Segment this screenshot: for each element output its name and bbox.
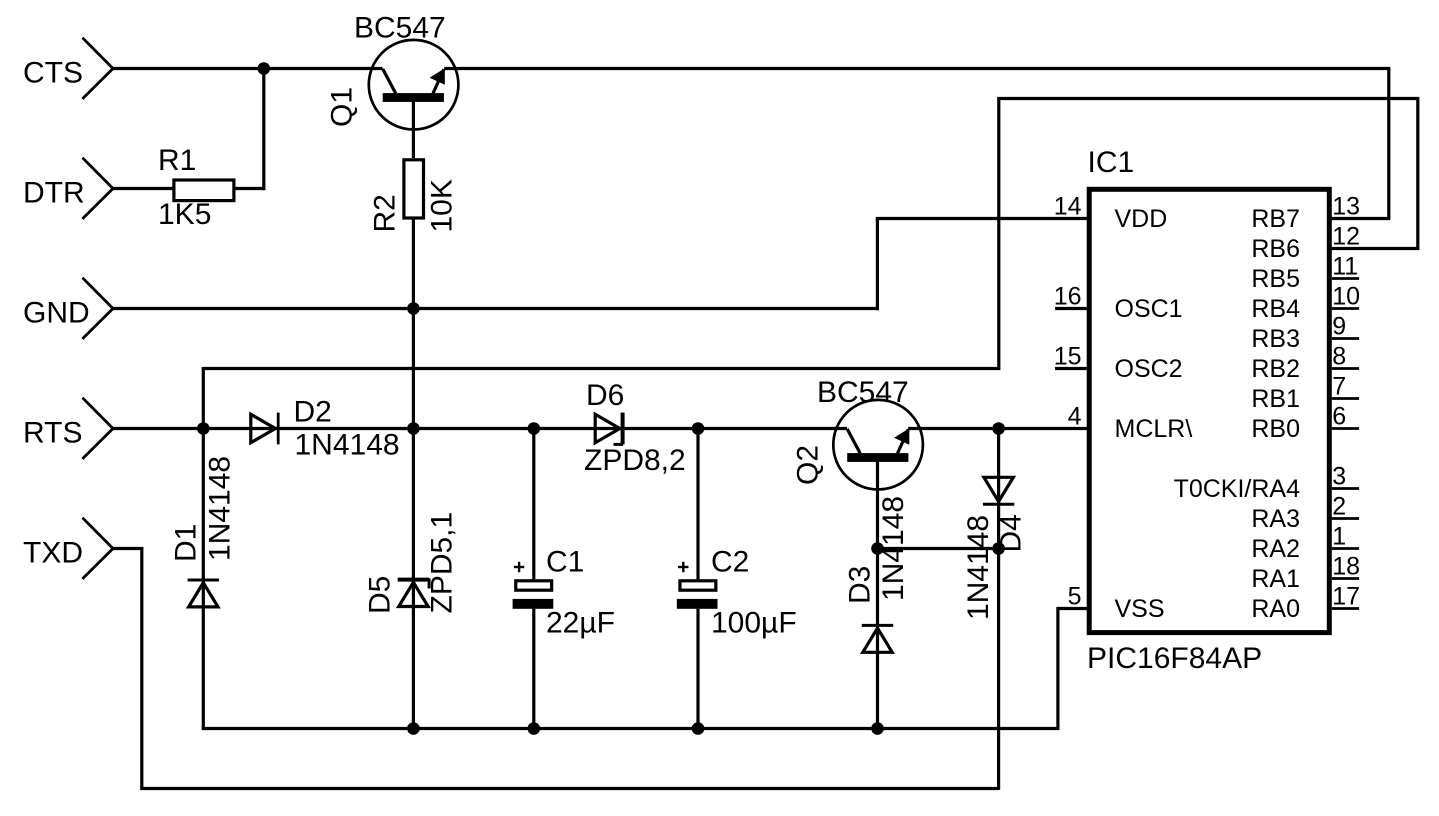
pin number 14 <box>1054 193 1082 221</box>
pin 2 stub <box>1332 517 1359 520</box>
wire RB6 top horizontal <box>997 97 1419 100</box>
IC U1 PIC16F84AP box <box>1087 146 1329 675</box>
svg-text:1N4148: 1N4148 <box>877 496 910 601</box>
svg-text:D3: D3 <box>844 566 877 604</box>
pin name RB0 <box>1251 415 1300 443</box>
wire Q1 base to R2 <box>412 101 415 158</box>
pin name RB4 <box>1251 295 1300 323</box>
diode D1 <box>170 456 237 607</box>
pin number 9 <box>1332 313 1346 341</box>
svg-text:7: 7 <box>1332 373 1346 401</box>
pin number 4 <box>1068 403 1082 431</box>
junction rail/C2 <box>692 722 705 735</box>
svg-text:RB5: RB5 <box>1251 265 1300 293</box>
wire RTS to Q2 <box>113 427 847 430</box>
wire GND to VDD riser <box>113 307 879 310</box>
svg-text:ZPD8,2: ZPD8,2 <box>584 444 686 477</box>
svg-text:MCLR\: MCLR\ <box>1115 415 1193 443</box>
pin number 13 <box>1332 193 1360 221</box>
svg-text:2: 2 <box>1332 493 1346 521</box>
wire RB6 riser <box>997 97 1000 370</box>
pin name RA3 <box>1251 505 1300 533</box>
svg-text:1: 1 <box>1332 523 1346 551</box>
svg-text:C2: C2 <box>711 546 749 579</box>
wire C1 to rail <box>532 609 535 729</box>
pin number 11 <box>1332 253 1358 281</box>
svg-text:VDD: VDD <box>1115 205 1168 233</box>
wire CTS to Q1 <box>113 67 383 70</box>
svg-text:RB1: RB1 <box>1251 385 1300 413</box>
svg-text:RA1: RA1 <box>1251 565 1300 593</box>
pin 6 stub <box>1332 427 1359 430</box>
connector GND <box>23 278 113 339</box>
pin name OSC2 <box>1115 355 1183 383</box>
junction RTS/C1 <box>528 422 541 435</box>
svg-text:C1: C1 <box>546 546 584 579</box>
pin 18 stub <box>1332 577 1359 580</box>
svg-text:TXD: TXD <box>23 537 83 570</box>
svg-text:T0CKI/RA4: T0CKI/RA4 <box>1174 475 1301 503</box>
svg-text:D2: D2 <box>294 396 332 429</box>
pin number 8 <box>1332 343 1346 371</box>
svg-text:11: 11 <box>1332 253 1358 281</box>
wire RB6 row horizontal <box>202 367 1000 370</box>
junction rail/D3 <box>871 722 884 735</box>
svg-text:1N4148: 1N4148 <box>204 456 237 561</box>
pin 15 stub <box>1055 367 1087 370</box>
pin 9 stub <box>1332 337 1359 340</box>
svg-text:IC1: IC1 <box>1088 146 1135 179</box>
wire corner up to CTS <box>262 69 265 191</box>
svg-text:RA0: RA0 <box>1251 595 1300 623</box>
pin name VDD <box>1115 205 1168 233</box>
wire D1 branch <box>202 429 205 730</box>
wire RB6 vertical right <box>1416 97 1419 250</box>
svg-text:RB4: RB4 <box>1251 295 1300 323</box>
diode D3 <box>844 496 911 652</box>
pin number 6 <box>1332 403 1346 431</box>
wire bottom rail <box>202 727 1059 730</box>
wire rail up to VSS <box>1056 607 1059 730</box>
wire R1 to corner <box>235 187 266 190</box>
wire Q2 base to rail <box>876 460 879 729</box>
svg-text:RA3: RA3 <box>1251 505 1300 533</box>
connector DTR <box>23 158 113 219</box>
svg-text:RA2: RA2 <box>1251 535 1300 563</box>
junction MCLR/D4 <box>992 422 1005 435</box>
wire to pin14 VDD <box>876 217 1087 220</box>
wire pin12 RB6 <box>1332 247 1420 250</box>
svg-text:13: 13 <box>1332 193 1360 221</box>
svg-text:D5: D5 <box>364 576 397 614</box>
svg-text:22µF: 22µF <box>546 607 615 640</box>
svg-text:RB6: RB6 <box>1251 235 1300 263</box>
diode D2 <box>251 396 400 462</box>
pin number 1 <box>1332 523 1346 551</box>
svg-text:R2: R2 <box>369 194 402 232</box>
svg-text:RB7: RB7 <box>1251 205 1300 233</box>
pin name VSS <box>1115 595 1165 623</box>
capacitor C1 <box>513 546 615 640</box>
wire pin13 RB7 <box>1332 217 1391 220</box>
wire pin5 VSS <box>1057 607 1088 610</box>
resistor R1 <box>158 144 234 231</box>
junction RTS/D1 <box>197 422 210 435</box>
svg-text:10: 10 <box>1332 283 1360 311</box>
junction RTS/C2 <box>692 422 705 435</box>
svg-text:4: 4 <box>1068 403 1082 431</box>
pin 7 stub <box>1332 397 1359 400</box>
junction D4/jumper <box>992 542 1005 555</box>
svg-text:Q2: Q2 <box>792 445 825 485</box>
svg-text:OSC2: OSC2 <box>1115 355 1183 383</box>
svg-text:15: 15 <box>1054 343 1082 371</box>
pin name OSC1 <box>1115 295 1183 323</box>
svg-text:9: 9 <box>1332 313 1346 341</box>
diode D4 <box>962 477 1028 620</box>
transistor Q1 <box>326 12 459 130</box>
pin 10 stub <box>1332 307 1359 310</box>
pin name RB6 <box>1251 235 1300 263</box>
svg-text:RTS: RTS <box>23 417 82 450</box>
svg-text:12: 12 <box>1332 223 1360 251</box>
svg-text:VSS: VSS <box>1115 595 1165 623</box>
pin name RB3 <box>1251 325 1300 353</box>
pin name RB5 <box>1251 265 1300 293</box>
connector TXD <box>23 518 113 579</box>
pin 1 stub <box>1332 547 1359 550</box>
pin name MCLR\ <box>1115 415 1193 443</box>
junction D3/jumper <box>871 542 884 555</box>
svg-text:D1: D1 <box>170 524 203 562</box>
svg-text:OSC1: OSC1 <box>1115 295 1183 323</box>
svg-text:10K: 10K <box>426 179 459 232</box>
connector RTS <box>23 398 113 459</box>
wire Q1 emitter to RB7 corner <box>444 67 1390 70</box>
svg-text:8: 8 <box>1332 343 1346 371</box>
wire VDD riser <box>876 219 879 311</box>
pin name RA1 <box>1251 565 1300 593</box>
svg-text:3: 3 <box>1332 463 1346 491</box>
wire TXD <box>113 547 143 550</box>
pin number 5 <box>1068 583 1082 611</box>
svg-text:100µF: 100µF <box>711 607 797 640</box>
pin 11 stub <box>1332 277 1359 280</box>
wire Q2 to pin4 MCLR <box>908 427 1087 430</box>
pin name T0CKI/RA4 <box>1174 475 1301 503</box>
svg-text:1N4148: 1N4148 <box>295 429 400 462</box>
wire TXD bottom rail <box>140 787 998 790</box>
transistor Q2 <box>792 376 923 490</box>
pin name RA0 <box>1251 595 1300 623</box>
svg-text:RB2: RB2 <box>1251 355 1300 383</box>
svg-text:BC547: BC547 <box>354 12 446 45</box>
pin number 12 <box>1332 223 1360 251</box>
wire TXD down <box>140 547 143 790</box>
svg-text:Q1: Q1 <box>326 87 359 127</box>
pin number 3 <box>1332 463 1346 491</box>
pin name RA2 <box>1251 535 1300 563</box>
svg-text:18: 18 <box>1332 553 1360 581</box>
wire RB7 vertical <box>1387 67 1390 219</box>
pin 8 stub <box>1332 367 1359 370</box>
pin 16 stub <box>1055 307 1087 310</box>
pin number 16 <box>1054 283 1082 311</box>
svg-text:D4: D4 <box>995 514 1028 552</box>
svg-text:1K5: 1K5 <box>158 198 211 231</box>
junction CTS/DTR <box>258 62 271 75</box>
svg-text:14: 14 <box>1054 193 1082 221</box>
pin number 15 <box>1054 343 1082 371</box>
resistor R2 <box>369 160 459 233</box>
zener D6 <box>584 379 686 477</box>
wire C2 to rail <box>696 609 699 729</box>
junction RTS/D5 <box>407 422 420 435</box>
svg-text:ZPD5,1: ZPD5,1 <box>426 512 459 614</box>
svg-text:D6: D6 <box>586 379 624 412</box>
svg-text:R1: R1 <box>158 144 196 177</box>
junction GND/R2 <box>407 302 420 315</box>
capacitor C2 <box>677 546 797 640</box>
pin name RB1 <box>1251 385 1300 413</box>
svg-text:17: 17 <box>1332 583 1360 611</box>
junction rail/D5 <box>407 722 420 735</box>
pin 17 stub <box>1332 607 1359 610</box>
svg-text:CTS: CTS <box>23 57 83 90</box>
pin name RB7 <box>1251 205 1300 233</box>
svg-text:16: 16 <box>1054 283 1082 311</box>
svg-text:RB0: RB0 <box>1251 415 1300 443</box>
wire RB6 down to RTS <box>202 367 205 428</box>
connector CTS <box>23 38 113 99</box>
svg-text:1N4148: 1N4148 <box>962 515 995 620</box>
junction rail/C1 <box>528 722 541 735</box>
pin number 7 <box>1332 373 1346 401</box>
wire DTR to R1 <box>113 187 174 190</box>
zener D5 <box>364 512 459 614</box>
pin number 17 <box>1332 583 1360 611</box>
pin name RB2 <box>1251 355 1300 383</box>
svg-text:RB3: RB3 <box>1251 325 1300 353</box>
wire RTS to C2 <box>696 429 699 580</box>
pin 3 stub <box>1332 487 1359 490</box>
pin number 2 <box>1332 493 1346 521</box>
svg-text:BC547: BC547 <box>817 376 909 409</box>
wire R2 to rail <box>412 220 415 729</box>
svg-text:5: 5 <box>1068 583 1082 611</box>
pin number 18 <box>1332 553 1360 581</box>
wire D4 TXD riser <box>997 429 1000 790</box>
svg-text:DTR: DTR <box>23 177 85 210</box>
svg-text:PIC16F84AP: PIC16F84AP <box>1087 642 1262 675</box>
svg-text:GND: GND <box>23 297 90 330</box>
pin number 10 <box>1332 283 1360 311</box>
wire RTS to C1 <box>532 429 535 580</box>
svg-text:6: 6 <box>1332 403 1346 431</box>
wire D3-D4 jumper <box>878 547 999 550</box>
